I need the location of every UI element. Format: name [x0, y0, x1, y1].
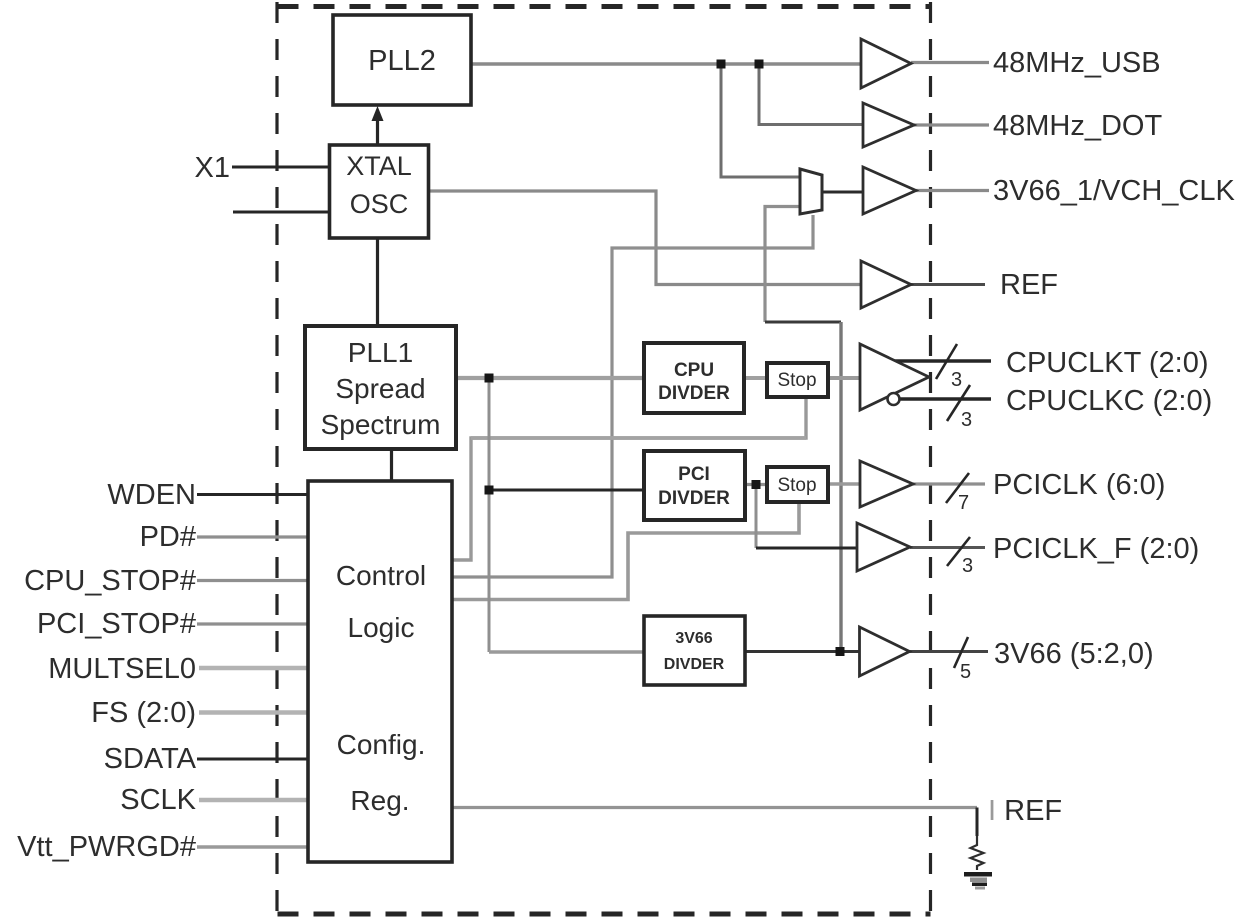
wire PD# input: [197, 535, 308, 538]
svg-text:CPUCLKC (2:0): CPUCLKC (2:0): [1006, 385, 1212, 417]
svg-text:DIVDER: DIVDER: [658, 488, 730, 509]
wire PLL2 output to 48MHz buffers: [471, 62, 861, 65]
arrowhead into PLL2: [372, 106, 384, 121]
junction on PCI DIVIDER input: [485, 486, 494, 495]
wire PCICLK_F output: [910, 546, 985, 549]
box XTAL OSC: [330, 145, 429, 238]
wire Stop1 to CPU buffer: [828, 376, 861, 380]
svg-text:48MHz_DOT: 48MHz_DOT: [993, 110, 1162, 142]
wire branch to PCI DIVIDER input: [489, 489, 644, 492]
bus slash CPUCLKT: [936, 344, 957, 379]
buffer 3V66_1/VCH_CLK: [863, 167, 916, 214]
wire XTAL OSC to PLL2 with arrow: [376, 119, 379, 145]
wire 3V66 output: [910, 650, 989, 653]
wire branch to 3V66 DIVIDER input: [489, 650, 644, 653]
box PLL2: [333, 15, 471, 105]
svg-text:7: 7: [958, 492, 969, 514]
junction after PCI DIVIDER: [752, 480, 761, 489]
buffer PCICLK_F: [857, 523, 910, 571]
box 3V66 DIVIDER: [644, 616, 745, 685]
wire Stop1 bottom feed: [471, 436, 806, 440]
wire 3V66 feedback to mux input 2: [765, 207, 800, 323]
ground symbol: [964, 872, 992, 890]
svg-text:I REF: I REF: [988, 795, 1062, 827]
svg-text:REF: REF: [1000, 269, 1058, 301]
wire CPU DIVIDER to Stop1: [744, 376, 767, 380]
junction on PLL2 output branch 2: [755, 60, 764, 69]
wire PLL1 output vertical branch: [488, 378, 491, 652]
box Stop1: [767, 363, 828, 397]
bus slash PCICLK_F: [947, 537, 970, 566]
buffer 48MHz_USB: [861, 39, 911, 88]
wire FS (2:0) input: [199, 710, 308, 714]
wire PCI divider branch to PCICLK_F buffer: [755, 485, 758, 549]
svg-text:Stop: Stop: [777, 475, 816, 496]
svg-text:OSC: OSC: [350, 189, 409, 219]
wire WDEN input: [197, 493, 308, 496]
svg-text:3: 3: [962, 555, 973, 577]
wire 3V66_1/VCH_CLK output: [916, 189, 989, 192]
wire XTAL OSC to PLL1: [376, 238, 379, 326]
svg-text:SCLK: SCLK: [120, 784, 196, 816]
svg-text:WDEN: WDEN: [107, 479, 196, 511]
svg-text:CPU: CPU: [674, 360, 714, 381]
wire crystal second input: [233, 211, 330, 214]
svg-text:X1: X1: [195, 152, 230, 184]
svg-text:MULTSEL0: MULTSEL0: [48, 653, 196, 685]
svg-text:Reg.: Reg.: [350, 785, 409, 816]
box Control Logic / Config Reg: [308, 481, 452, 862]
svg-text:FS (2:0): FS (2:0): [91, 697, 196, 729]
wire REF output: [911, 283, 985, 286]
svg-text:DIVDER: DIVDER: [664, 656, 725, 673]
svg-text:PLL2: PLL2: [368, 45, 436, 77]
wire PCICLK_F feed horizontal: [756, 547, 858, 550]
wire SDATA input: [197, 758, 308, 761]
resistor on IREF: [971, 836, 984, 870]
wire Stop2 to PCICLK buffer: [828, 482, 861, 486]
wire 3V66 feedback horizontal segment: [765, 321, 841, 324]
wire X1 input: [232, 166, 330, 169]
wire XTAL OSC output to REF buffer: [429, 191, 861, 285]
svg-text:3: 3: [961, 409, 972, 431]
junction on PLL2 output branch 1: [717, 60, 726, 69]
svg-text:SDATA: SDATA: [104, 743, 197, 775]
svg-text:Stop: Stop: [777, 370, 816, 391]
svg-text:5: 5: [960, 661, 971, 683]
svg-text:3V66_1/VCH_CLK: 3V66_1/VCH_CLK: [993, 175, 1235, 207]
svg-text:3V66 (5:2,0): 3V66 (5:2,0): [994, 638, 1154, 670]
wire PCI_STOP# input: [197, 622, 308, 625]
wire IREF corner down: [976, 808, 979, 837]
wire PCI stop control from Control Logic: [452, 503, 799, 600]
wire 48MHz branch to mux input 1: [721, 64, 800, 177]
svg-text:Spread: Spread: [335, 373, 425, 404]
wire MULTSEL0 input: [199, 666, 308, 670]
wire 48MHz branch to 48MHz_DOT buffer: [759, 64, 863, 125]
wire CPU_STOP# input: [197, 579, 308, 582]
svg-text:Vtt_PWRGD#: Vtt_PWRGD#: [17, 831, 196, 863]
wire 48MHz_USB output: [911, 61, 989, 64]
junction on 3V66 output: [836, 647, 845, 656]
svg-text:PCI_STOP#: PCI_STOP#: [37, 608, 196, 640]
svg-text:DIVDER: DIVDER: [658, 383, 730, 404]
svg-text:PCICLK (6:0): PCICLK (6:0): [993, 469, 1165, 501]
svg-text:48MHz_USB: 48MHz_USB: [993, 47, 1161, 79]
wire 3V66 DIVIDER output to buffer: [745, 650, 860, 653]
wire CPUCLKT output: [894, 359, 991, 362]
buffer REF: [861, 261, 911, 308]
svg-text:XTAL: XTAL: [346, 151, 412, 181]
buffer CPUCLK differential: [860, 344, 929, 410]
wire mux output to 3V66_1 buffer: [822, 191, 863, 194]
wire PLL1 to Control Logic: [390, 449, 393, 481]
buffer 48MHz_DOT: [863, 103, 914, 147]
svg-text:3: 3: [951, 369, 962, 391]
svg-text:CPUCLKT (2:0): CPUCLKT (2:0): [1006, 347, 1209, 379]
wire SCLK input: [199, 798, 308, 802]
bus slash CPUCLKC: [947, 385, 970, 421]
mux 2:1 before 3V66_1 buffer: [800, 169, 822, 214]
box Stop2: [767, 467, 828, 502]
wire CPUCLKC output: [900, 397, 991, 400]
bus slash 3V66: [954, 637, 968, 668]
wire IREF from Config Reg: [452, 806, 977, 809]
buffer PCICLK: [860, 461, 913, 507]
inverter bubble on CPUCLKC: [888, 393, 900, 405]
wire 3V66 vertical riser to divider output: [839, 322, 842, 652]
svg-text:PLL1: PLL1: [348, 337, 413, 368]
box PLL1 Spread Spectrum: [305, 326, 456, 449]
wire PCI DIVIDER to Stop2: [745, 483, 767, 486]
junction on PLL1 output: [485, 374, 494, 383]
svg-text:PCI: PCI: [678, 464, 710, 485]
bus slash PCICLK: [946, 473, 969, 503]
chip boundary (dashed): [277, 2, 931, 918]
svg-text:PCICLK_F (2:0): PCICLK_F (2:0): [993, 533, 1199, 565]
wire Vtt_PWRGD# input: [197, 845, 308, 848]
svg-text:Spectrum: Spectrum: [321, 409, 441, 440]
box PCI DIVIDER: [644, 451, 745, 520]
box CPU DIVIDER: [644, 343, 744, 413]
wire CPU stop control from Control Logic: [452, 398, 806, 560]
svg-text:Control: Control: [336, 560, 426, 591]
svg-text:3V66: 3V66: [675, 630, 712, 647]
buffer 3V66: [860, 627, 910, 676]
wire mux select from Control Logic: [452, 215, 813, 577]
wire 48MHz_DOT output: [914, 123, 989, 126]
wire PLL1 output to CPU DIVIDER: [456, 376, 644, 380]
svg-text:PD#: PD#: [140, 521, 196, 553]
wire PCICLK output: [913, 482, 985, 485]
svg-text:Logic: Logic: [348, 612, 415, 643]
svg-text:CPU_STOP#: CPU_STOP#: [24, 565, 196, 597]
svg-text:Config.: Config.: [337, 729, 426, 760]
